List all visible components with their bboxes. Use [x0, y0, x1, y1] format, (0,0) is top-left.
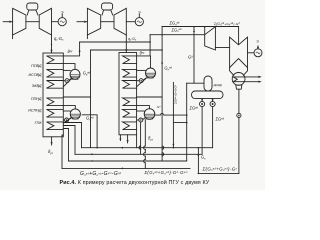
GT2 generator [126, 21, 135, 23]
deaerator steam tap Gd [193, 27, 195, 83]
LP riser to upper header [161, 27, 163, 98]
HRSG1 casing [43, 53, 63, 137]
HRSG2 casing [119, 53, 137, 135]
HRSG2 corner downcomer [136, 135, 138, 148]
condenser exhaust funnel [230, 68, 248, 76]
ST crossover shaft [215, 47, 229, 49]
svg-text:Э: Э [138, 11, 141, 15]
condensate Gk line [197, 148, 199, 174]
GT1 generator [52, 21, 59, 23]
svg-text:ϑух: ϑух [48, 149, 54, 155]
svg-text:ϑку: ϑку [68, 49, 73, 54]
HRSG1 coil ISPVD [47, 69, 63, 77]
HRSG2 coil EKVD [123, 81, 137, 89]
HP circulation pump 2 [137, 80, 140, 82]
deaerator column [204, 76, 212, 91]
svg-text:ППНД: ППНД [31, 97, 42, 101]
HP steam collector to HRSG2 [80, 41, 151, 43]
LP drum1 downcomer to bus [82, 97, 97, 148]
HRSG1 coil ISPND [47, 109, 63, 117]
HRSG2 coil ISPVD [123, 69, 137, 77]
gas turbine GT2 combustor [102, 3, 113, 10]
svg-text:Д(НД): Д(НД) [213, 83, 222, 87]
gas turbine GT2 compressor [87, 8, 100, 35]
svg-text:ΣGнд: ΣGнд [215, 117, 225, 122]
feed pump ND discharge [212, 107, 214, 148]
HRSG2 coil PPVD [123, 56, 137, 64]
bottom bus 4 condensate [62, 167, 190, 169]
HRSG1 coil PPND [47, 98, 63, 106]
GT1 exhaust duct [51, 35, 53, 53]
HRSG1 stack outlet [51, 137, 53, 145]
LP steam HRSG2 outlet [137, 96, 163, 98]
HP circulation pump 1 [63, 80, 65, 82]
deaerator drain to bus3 [186, 83, 188, 161]
svg-text:qг·Gг: qг·Gг [128, 37, 137, 42]
GT1 mount stub [12, 35, 14, 39]
HRSG2 drain stub [119, 135, 121, 141]
condenser [232, 73, 245, 86]
svg-text:ИСПНД: ИСПНД [28, 109, 42, 113]
bus arrows [120, 147, 123, 149]
LP drum 2 [144, 109, 155, 120]
riser flow arrow 2 [161, 61, 163, 64]
svg-text:Gпвд: Gпвд [83, 70, 91, 76]
LP steam collector [91, 49, 163, 51]
svg-text:Σ(Gпвд+Gпнд)-Gд: Σ(Gпвд+Gпнд)-Gд [213, 22, 240, 27]
bottom bus 1 feedwater ND [82, 147, 213, 149]
GT2 air inlet [77, 21, 87, 23]
GT1 shaft [26, 21, 39, 23]
gas turbine GT1 combustor [27, 3, 38, 10]
HP steam HRSG2 riser [136, 35, 150, 56]
svg-text:Gпнд: Gпнд [164, 65, 172, 71]
LP circulation pump 1 [63, 119, 64, 121]
svg-text:ЭКВД: ЭКВД [32, 84, 42, 88]
svg-text:ΣGпвд: ΣGпвд [169, 20, 180, 26]
svg-text:ϑух: ϑух [148, 136, 154, 142]
GT2 mount stub [86, 35, 88, 39]
condensate return line [198, 172, 239, 174]
HRSG1 coil EKVD [47, 81, 63, 89]
steam turbine LP cylinder [230, 37, 248, 68]
HRSG1 coil GPK [47, 122, 63, 130]
svg-text:qг·Gг: qг·Gг [54, 36, 64, 42]
feedwater line to HRSG2 via bus [173, 83, 186, 148]
gas turbine GT2 turbine [114, 8, 126, 35]
condenser hotwell [236, 85, 242, 89]
svg-text:Gк: Gк [201, 155, 206, 161]
feed pump VD discharge [201, 107, 203, 155]
GT2 exhaust duct [125, 35, 127, 53]
bottom bus 2 feedwater VD [75, 153, 202, 155]
svg-text:Gн: Gн [157, 105, 161, 109]
riser flow arrow [79, 49, 81, 52]
feed pump VD [200, 101, 205, 106]
feed pump ND suction [212, 99, 214, 102]
svg-text:Э: Э [256, 40, 259, 44]
svg-text:Gпвд+Gпнд-Gут-Gпр: Gпвд+Gпнд-Gут-Gпр [80, 171, 122, 177]
LP drum 1 [70, 109, 80, 119]
LP steam line HRSG1 riser [63, 50, 90, 97]
svg-text:Gпнд: Gпнд [86, 115, 94, 121]
svg-text:ИСПВД: ИСПВД [29, 73, 42, 77]
upper steam header to LP turbine [162, 27, 239, 45]
GT2 shaft [101, 21, 114, 23]
svg-text:Σ(Gпвд+Gпнд)-Gд·Gут: Σ(Gпвд+Gпнд)-Gд·Gут [144, 170, 188, 176]
HP steam line HRSG1 riser [63, 42, 80, 56]
HP drum 2 [146, 68, 156, 78]
gas turbine GT1 compressor [13, 8, 26, 35]
HP drum 1 [70, 69, 80, 79]
svg-text:ГПК: ГПК [35, 121, 43, 125]
HRSG2 feed risers [144, 120, 146, 169]
svg-text:Gд: Gд [188, 55, 193, 60]
feed pump VD suction [201, 99, 203, 102]
LP drum 2 outlet right [155, 113, 187, 115]
HRSG2 stack outlet [127, 135, 129, 143]
bottom bus 3 [69, 160, 187, 162]
condenser cooling coil [233, 77, 243, 82]
HRSG1 coil PPVD [47, 56, 63, 64]
ST generator [248, 52, 255, 54]
HRSG2 coil PPND [123, 98, 137, 106]
gas turbine GT1 turbine [39, 8, 51, 35]
svg-text:Э: Э [61, 11, 64, 15]
steam turbine HP cylinder [205, 27, 216, 50]
svg-text:ΣGпнд: ΣGпнд [171, 27, 183, 33]
HP steam header to HP turbine [150, 34, 205, 36]
svg-text:Σ(Gпвд+Gпнд)-Gк: Σ(Gпвд+Gпнд)-Gк [202, 166, 238, 172]
svg-text:Σ(Gвд+Gнд)-Gд: Σ(Gвд+Gнд)-Gд [174, 84, 178, 105]
svg-text:ППВД: ППВД [31, 64, 42, 68]
condensate pump [238, 89, 240, 113]
feed pump ND [210, 101, 215, 106]
LP riser crossing hops [161, 97, 163, 161]
svg-text:ΣGвд: ΣGвд [189, 106, 199, 111]
LP circulation pump 2 [137, 119, 139, 121]
svg-text:Рис.4. К примеру расчета двух: Рис.4. К примеру расчета двухконтурной П… [60, 179, 210, 186]
deaerator tank [192, 91, 224, 99]
bus risers HRSG1 [63, 123, 81, 148]
HRSG2 coil GPK [123, 122, 137, 130]
GT1 air inlet [3, 21, 12, 23]
HRSG2 coil ISPND [123, 109, 137, 117]
svg-text:ϑку: ϑку [140, 51, 145, 56]
